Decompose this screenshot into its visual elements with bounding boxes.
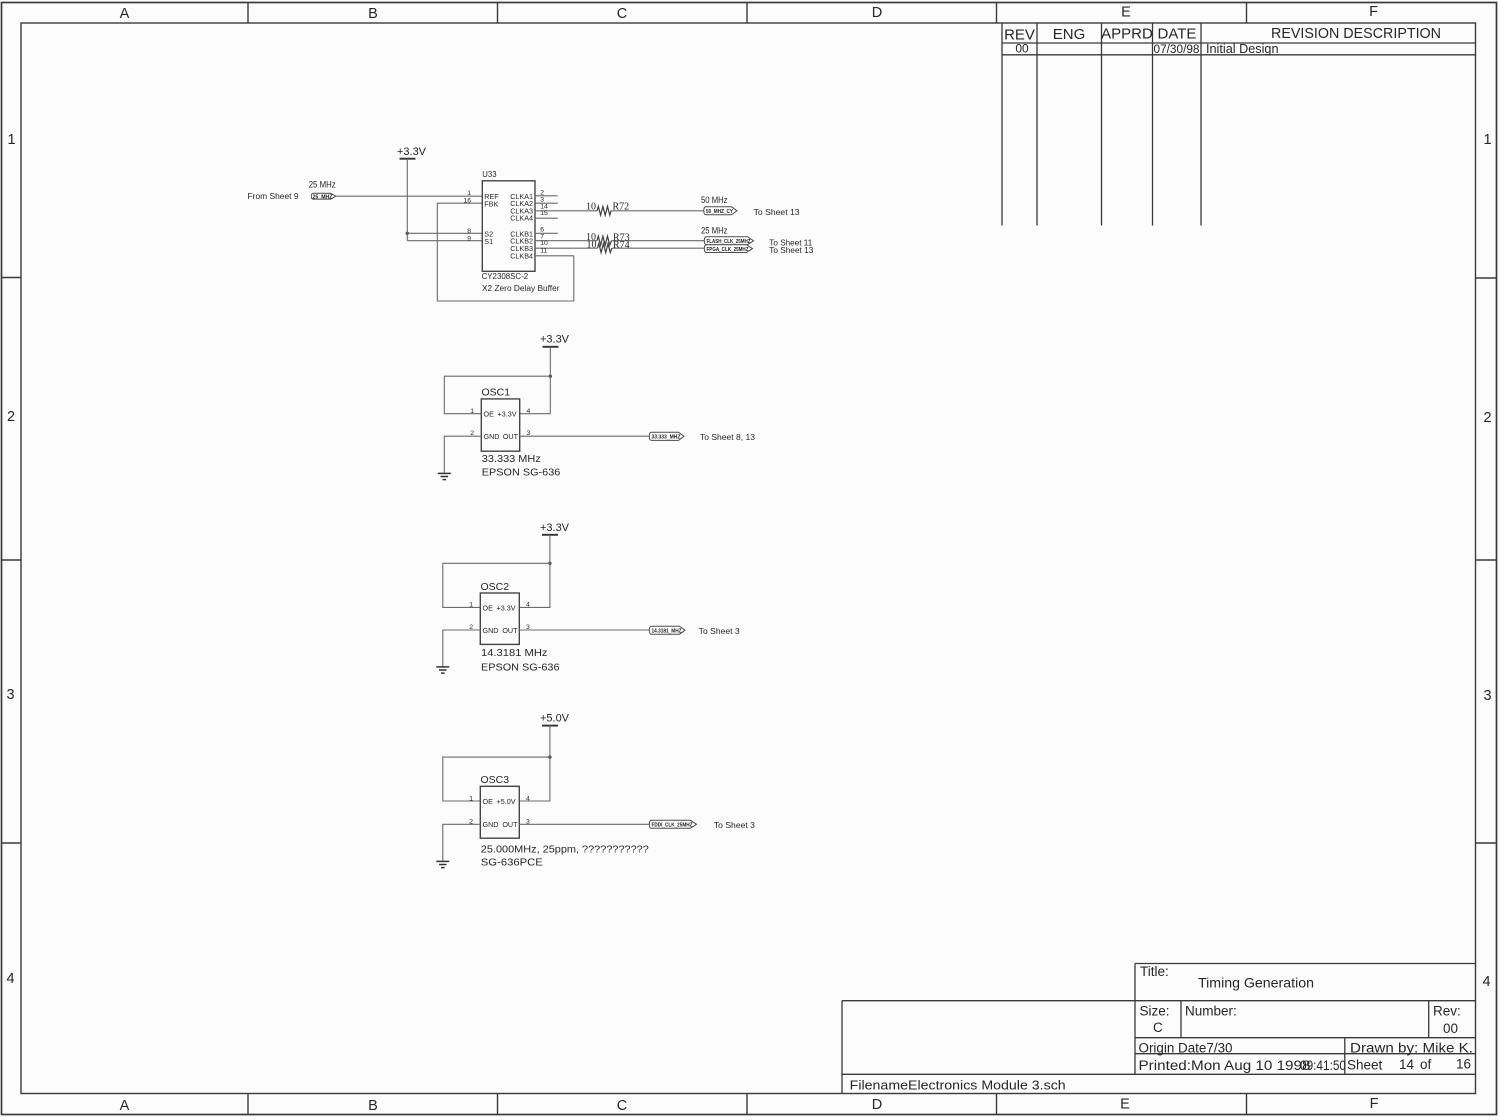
svg-text:3: 3 — [1483, 688, 1491, 704]
power +3.3V rail for OSC2 — [540, 522, 570, 535]
svg-text:10: 10 — [587, 239, 597, 250]
U33 pin 11 stub CLKB4 — [535, 247, 574, 255]
svg-text:50 MHz: 50 MHz — [701, 195, 728, 205]
svg-text:07/30/98: 07/30/98 — [1154, 44, 1200, 56]
svg-text:From Sheet 9: From Sheet 9 — [248, 191, 299, 201]
svg-text:C: C — [617, 1098, 627, 1114]
svg-text:25 MHz: 25 MHz — [701, 226, 728, 236]
svg-text:CY2308SC-2: CY2308SC-2 — [482, 272, 528, 281]
svg-text:CLKB4: CLKB4 — [510, 252, 533, 261]
node junction OSC1 OE tap — [549, 375, 552, 378]
svg-text:SG-636PCE: SG-636PCE — [481, 857, 543, 869]
svg-text:14.3181_MHZ: 14.3181_MHZ — [652, 628, 683, 634]
U33 pin 15 stub CLKA4 — [535, 210, 558, 218]
svg-text:1: 1 — [7, 132, 15, 148]
power +5.0V rail for OSC3 — [540, 713, 570, 726]
U33 pin 2 stub CLKA1 — [535, 189, 558, 196]
ground OSC2 — [436, 667, 449, 673]
svg-text:B: B — [368, 1098, 378, 1114]
svg-text:X2 Zero Delay Buffer: X2 Zero Delay Buffer — [482, 284, 560, 293]
svg-text:16: 16 — [1456, 1057, 1471, 1072]
svg-text:B: B — [368, 6, 378, 22]
U33 pin 14 wire CLKA3 (50 MHz) — [535, 203, 704, 211]
power +3.3V rail for OSC1 — [540, 334, 570, 347]
ground OSC3 — [436, 861, 449, 867]
IC U33 CY2308SC-2 zero delay buffer — [482, 170, 560, 293]
net flag 33.333_MHZ to sheet 8,13 — [649, 432, 755, 442]
svg-text:F: F — [1369, 4, 1378, 20]
ground OSC1 — [438, 473, 451, 479]
svg-text:Title:: Title: — [1140, 964, 1169, 979]
svg-text:33.333_MHZ: 33.333_MHZ — [652, 435, 682, 441]
svg-text:Printed:Mon Aug 10 1998: Printed:Mon Aug 10 1998 — [1139, 1058, 1311, 1073]
svg-text:FLASH_CLK_25MHZ: FLASH_CLK_25MHZ — [707, 239, 752, 245]
resistor R74 — [598, 244, 613, 253]
svg-text:4: 4 — [526, 602, 530, 609]
svg-text:FDDI_CLK_25MHZ: FDDI_CLK_25MHZ — [652, 823, 694, 829]
oscillator OSC2 — [480, 581, 559, 674]
svg-text:FBK: FBK — [484, 199, 498, 208]
svg-text:1: 1 — [469, 795, 473, 802]
svg-text:Number:: Number: — [1185, 1004, 1237, 1019]
svg-text:10: 10 — [540, 240, 548, 247]
net flag FPGA_CLK_25MHZ to sheet 13 — [704, 245, 813, 255]
net flag FDDI_CLK_25MHZ to sheet 3 — [649, 820, 755, 830]
svg-text:To Sheet 13: To Sheet 13 — [754, 207, 800, 217]
wire +3.3V vertical to S1/S2 — [406, 159, 408, 241]
svg-text:To Sheet 3: To Sheet 3 — [699, 626, 740, 636]
node junction +3.3V / S2 — [406, 232, 409, 235]
oscillator OSC3 — [480, 774, 649, 868]
svg-text:9: 9 — [467, 235, 471, 242]
svg-text:S1: S1 — [484, 237, 493, 246]
svg-text:FPGA_CLK_25MHZ: FPGA_CLK_25MHZ — [707, 247, 750, 253]
svg-text:1: 1 — [469, 602, 473, 609]
svg-text:A: A — [120, 6, 130, 22]
title block — [842, 964, 1476, 1094]
svg-text:4: 4 — [527, 408, 531, 415]
svg-text:REVISION DESCRIPTION: REVISION DESCRIPTION — [1271, 25, 1441, 42]
svg-text:8: 8 — [467, 228, 471, 235]
svg-text:R72: R72 — [613, 201, 630, 212]
svg-text:CLKA4: CLKA4 — [510, 214, 533, 223]
wire OSC2 OUT — [519, 629, 649, 631]
svg-text:OE: OE — [483, 797, 494, 806]
svg-text:OUT: OUT — [503, 432, 519, 441]
svg-text:C: C — [1153, 1020, 1163, 1035]
svg-text:1: 1 — [470, 408, 474, 415]
svg-text:2: 2 — [1483, 410, 1491, 426]
svg-text:EPSON SG-636: EPSON SG-636 — [482, 466, 561, 478]
svg-text:OSC3: OSC3 — [481, 774, 510, 786]
svg-text:2: 2 — [7, 409, 15, 425]
svg-text:+3.3V: +3.3V — [498, 410, 517, 419]
svg-text:09:41:50: 09:41:50 — [1300, 1058, 1346, 1073]
wire S1 — [407, 240, 482, 242]
resistor R73 — [597, 236, 612, 245]
svg-text:GND: GND — [484, 432, 500, 441]
wire OSC1 GND — [444, 436, 481, 473]
svg-text:of: of — [1420, 1057, 1432, 1072]
svg-text:E: E — [1121, 5, 1131, 21]
svg-text:2: 2 — [540, 189, 544, 196]
net flag 14.3181_MHZ to sheet 3 — [649, 626, 740, 636]
svg-text:4: 4 — [1482, 974, 1490, 990]
svg-text:C: C — [617, 6, 627, 22]
svg-text:14: 14 — [1399, 1057, 1415, 1072]
svg-text:+3.3V: +3.3V — [540, 522, 570, 534]
svg-text:50_MHZ_CY: 50_MHZ_CY — [706, 209, 733, 215]
U33 pin 3 stub CLKA2 — [535, 196, 558, 203]
svg-text:D: D — [872, 1097, 882, 1113]
net flag FLASH_CLK_25MHZ to sheet 11 — [701, 226, 813, 248]
svg-text:10: 10 — [586, 201, 596, 212]
wire OSC1 OE loop — [444, 376, 550, 414]
svg-text:To Sheet 13: To Sheet 13 — [769, 245, 813, 255]
wire +3.3V down to OSC1 pin 4 — [520, 347, 551, 414]
oscillator OSC1 — [481, 386, 560, 478]
svg-text:OSC1: OSC1 — [482, 386, 511, 398]
svg-text:Drawn by: Mike K.: Drawn by: Mike K. — [1350, 1041, 1473, 1056]
svg-text:Sheet: Sheet — [1347, 1058, 1383, 1073]
svg-text:Initial Design: Initial Design — [1206, 42, 1279, 56]
svg-text:16: 16 — [463, 197, 471, 204]
svg-text:+3.3V: +3.3V — [540, 334, 570, 346]
svg-text:GND: GND — [483, 626, 499, 635]
wire OSC3 OE loop — [443, 757, 550, 801]
svg-text:To Sheet 3: To Sheet 3 — [714, 820, 755, 830]
svg-text:+3.3V: +3.3V — [497, 603, 516, 612]
svg-text:11: 11 — [540, 247, 547, 254]
svg-text:25_MHZ: 25_MHZ — [313, 194, 334, 200]
svg-text:D: D — [872, 5, 882, 21]
svg-text:OE: OE — [483, 603, 494, 612]
svg-text:R74: R74 — [613, 240, 630, 251]
svg-text:25 MHz: 25 MHz — [309, 180, 336, 190]
net flag 50_MHZ_CY to sheet 13 — [701, 195, 800, 217]
svg-text:F: F — [1370, 1096, 1379, 1112]
svg-text:+3.3V: +3.3V — [397, 146, 427, 158]
wire OSC2 OE loop — [443, 563, 550, 607]
wire S2 — [407, 232, 482, 234]
svg-text:4: 4 — [6, 971, 14, 987]
svg-text:Rev:: Rev: — [1433, 1004, 1461, 1019]
net flag 25_MHZ from sheet 9 — [248, 180, 336, 202]
svg-text:00: 00 — [1443, 1021, 1458, 1036]
wire +5.0V down to OSC3 pin 4 — [519, 726, 550, 801]
svg-text:Origin Date7/30: Origin Date7/30 — [1139, 1041, 1233, 1056]
U33 pin 7 wire CLKB2 (flash clock) — [535, 233, 705, 240]
wire REF input (25 MHz) — [336, 195, 483, 197]
svg-text:Size:: Size: — [1140, 1004, 1170, 1019]
svg-text:15: 15 — [540, 210, 548, 217]
svg-text:33.333 MHz: 33.333 MHz — [482, 453, 541, 465]
wire OSC3 OUT — [519, 823, 649, 825]
svg-text:3: 3 — [6, 687, 14, 703]
svg-text:APPRD: APPRD — [1101, 26, 1153, 43]
svg-text:DATE: DATE — [1158, 26, 1197, 43]
U33 pin 10 wire CLKB3 (fpga clock) — [535, 240, 705, 248]
svg-text:00: 00 — [1015, 42, 1029, 56]
svg-text:+5.0V: +5.0V — [540, 713, 570, 725]
wire +3.3V down to OSC2 pin 4 — [519, 535, 550, 608]
svg-text:OUT: OUT — [502, 626, 518, 635]
svg-text:1: 1 — [467, 190, 471, 197]
svg-text:E: E — [1120, 1097, 1130, 1113]
svg-text:25.000MHz, 25ppm, ???????????: 25.000MHz, 25ppm, ??????????? — [481, 844, 649, 856]
svg-text:14.3181 MHz: 14.3181 MHz — [481, 647, 548, 659]
svg-text:A: A — [120, 1098, 130, 1114]
svg-text:3: 3 — [540, 196, 544, 203]
svg-text:OUT: OUT — [502, 820, 518, 829]
wire OSC1 OUT — [520, 435, 650, 437]
wire OSC3 GND — [443, 824, 481, 861]
power +3.3V rail for U33 — [397, 146, 427, 159]
wire OSC2 GND — [443, 630, 481, 667]
svg-text:+5.0V: +5.0V — [497, 797, 516, 806]
svg-text:FilenameElectronics Module 3.s: FilenameElectronics Module 3.sch — [850, 1078, 1066, 1093]
node junction OSC2 OE tap — [548, 562, 551, 565]
svg-text:To Sheet 8, 13: To Sheet 8, 13 — [700, 432, 755, 442]
svg-text:Timing Generation: Timing Generation — [1198, 975, 1314, 991]
svg-text:GND: GND — [483, 820, 499, 829]
svg-text:OSC2: OSC2 — [481, 581, 510, 593]
resistor R72 — [597, 206, 611, 215]
svg-text:1: 1 — [1483, 132, 1491, 148]
svg-text:4: 4 — [526, 795, 530, 802]
node junction OSC3 OE tap — [548, 755, 551, 758]
svg-text:EPSON SG-636: EPSON SG-636 — [481, 662, 560, 674]
svg-text:U33: U33 — [482, 170, 496, 179]
svg-text:ENG: ENG — [1053, 26, 1086, 43]
revision table — [1002, 23, 1476, 226]
wire FBK feedback loop — [437, 203, 574, 301]
U33 pin 6 stub CLKB1 — [535, 226, 558, 233]
svg-text:OE: OE — [484, 410, 495, 419]
